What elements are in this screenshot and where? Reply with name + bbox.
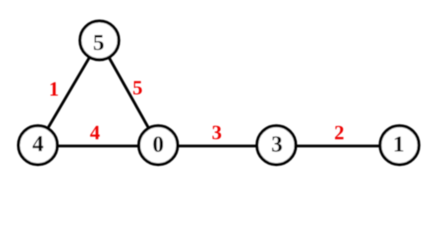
wire edge 4-0 bbox=[38, 145, 158, 148]
wire edge 0-3 bbox=[158, 145, 276, 148]
node 3 bbox=[257, 126, 296, 165]
wire edge 3-1 bbox=[276, 145, 399, 148]
node 5 bbox=[80, 21, 119, 60]
wire edge 4-5 bbox=[38, 40, 100, 145]
weight label 1 (edge 4-5) bbox=[50, 82, 57, 95]
weight label 5 (edge 5-0) bbox=[133, 81, 142, 94]
weight label 3 (edge 0-3) bbox=[212, 126, 221, 140]
weight label 2 (edge 3-1) bbox=[335, 126, 343, 139]
weight label 4 (edge 4-0) bbox=[90, 126, 99, 139]
node 0 bbox=[139, 126, 178, 165]
node 4 bbox=[18, 126, 57, 165]
wire edge 5-0 bbox=[99, 40, 158, 145]
node 1 bbox=[380, 126, 419, 165]
